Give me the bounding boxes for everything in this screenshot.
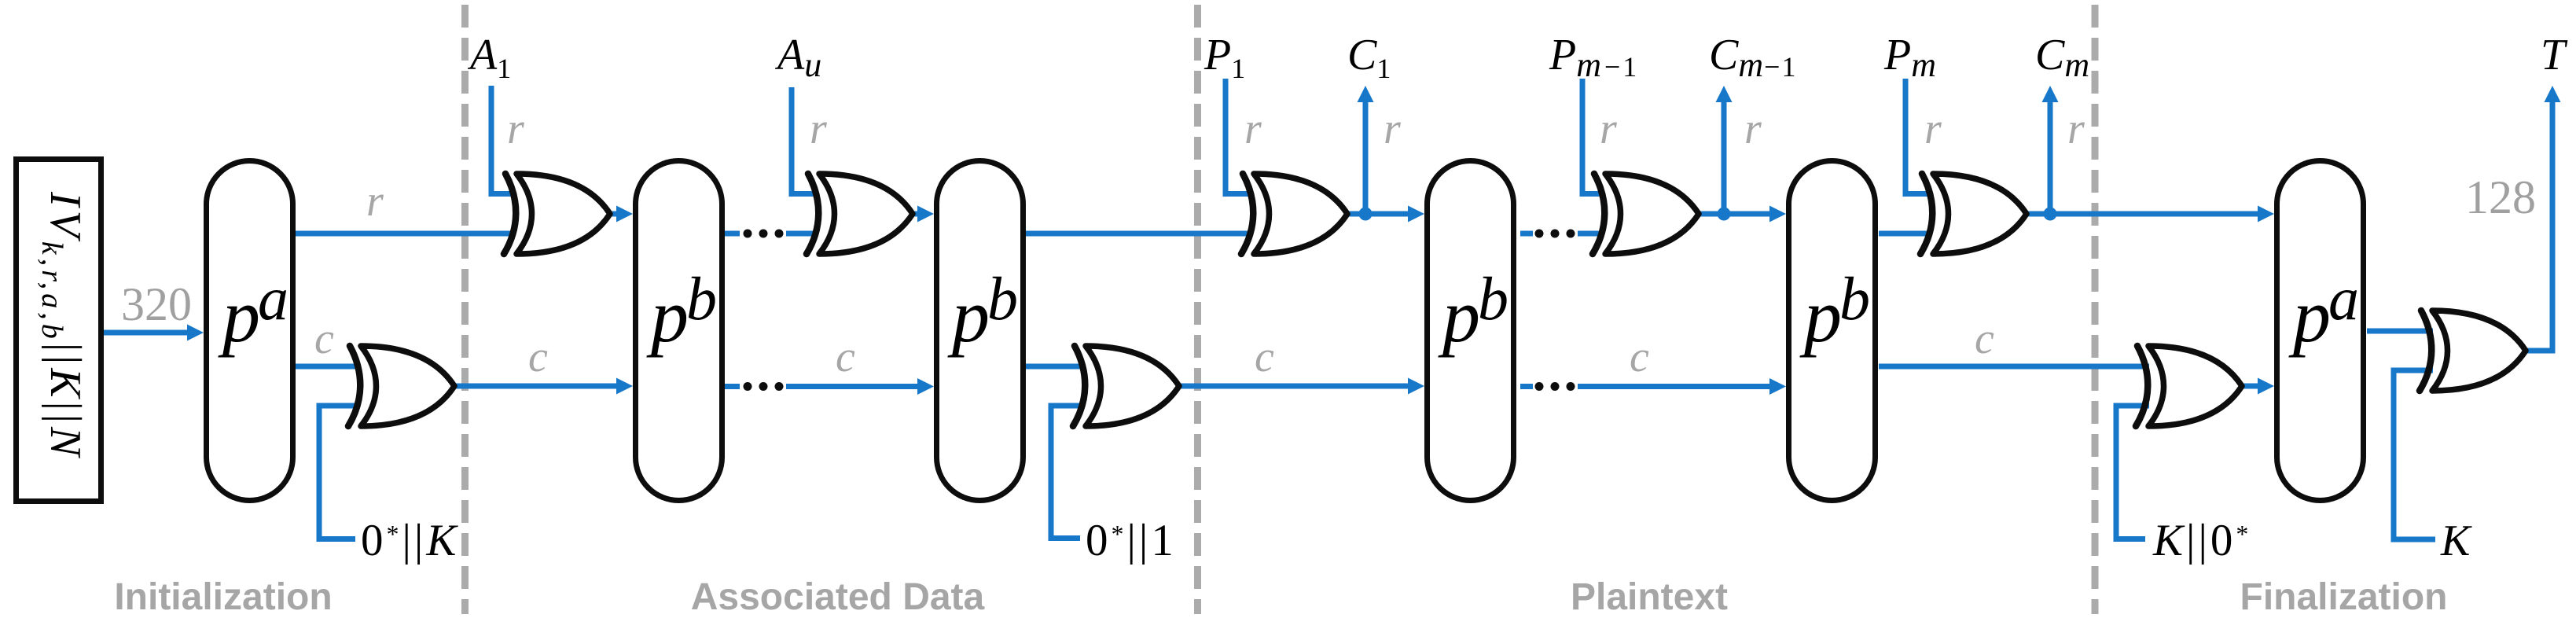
junction node Cm (2044, 208, 2057, 221)
arrowhead C1 up (1358, 86, 1374, 102)
arrowhead c into p^a2 (2258, 378, 2274, 395)
arrowhead c into p^b3 (1408, 378, 1424, 395)
svg-text:r: r (1924, 105, 1942, 153)
xor U1 (init c-line, 0*||K) (348, 346, 454, 426)
wire c: p^a to init XOR (296, 364, 360, 370)
arrowhead Cm-1 up (1716, 86, 1733, 102)
wire P1 drop (1226, 79, 1252, 194)
ellipsis dots r line (AD) (744, 230, 752, 238)
svg-text:r: r (366, 177, 384, 226)
wire Cm-1 up arrow (1722, 101, 1727, 214)
permutation p^a (finalization) (2277, 161, 2364, 501)
wire r: p^b2 to XOR P1 (1026, 231, 1252, 237)
wire K feed (2394, 370, 2435, 539)
svg-text:c: c (1255, 333, 1274, 381)
wire c: p^b3 to dots (1520, 384, 1533, 389)
svg-text:0*||1: 0*||1 (1086, 516, 1177, 565)
permutation p^a (initialization) (207, 161, 293, 501)
xor U9 (tag T) (2420, 311, 2526, 391)
wire Pm drop (1905, 79, 1931, 194)
permutation p^b (AD 2) (937, 161, 1023, 501)
xor U6 (Pm-1 on r-line) (1593, 174, 1699, 254)
wire Au drop (792, 87, 816, 194)
svg-text:c: c (836, 333, 855, 381)
permutation p^b (AD 1) (636, 161, 722, 501)
wire c: XOR K||0* out to p^a2 (2242, 384, 2259, 389)
arrowhead XOR Au out into p^b2 (917, 206, 934, 223)
wire Cm up arrow (2048, 101, 2053, 214)
svg-text:c: c (1630, 333, 1649, 381)
xor U4 (0*||1 on c-line) (1073, 346, 1179, 426)
wire c: dots to p^b4 (1578, 384, 1771, 389)
wire Pm-1 drop (1582, 79, 1604, 194)
wire r: dots to XOR Pm-1 (1578, 231, 1604, 237)
arrowhead r into p^a2 (2258, 206, 2274, 223)
junction node Cm-1 (1718, 208, 1731, 221)
wire XOR A1 out (610, 212, 619, 217)
svg-text:Plaintext: Plaintext (1571, 576, 1728, 618)
IV input box (17, 160, 101, 502)
svg-text:r: r (810, 105, 827, 153)
xor U8 (K||0* on c-line) (2136, 346, 2242, 426)
wire 320 bus (104, 330, 189, 336)
wire r: p^a to XOR A1 (296, 231, 515, 237)
wire c: dots to p^b2 (786, 384, 917, 389)
junction node C1 (1359, 208, 1373, 221)
wire r: p^b1 to dots (723, 231, 740, 237)
svg-text:128: 128 (2465, 171, 2536, 223)
wire XOR Au out (913, 212, 920, 217)
wire 0*||K feed (319, 406, 360, 539)
wire c: p^b2 to XOR 0*||1 (1026, 364, 1085, 370)
svg-text:T: T (2541, 31, 2568, 79)
wire XOR Pm out to p^a2 (2027, 212, 2259, 217)
wire r: p^a2 to XOR T (2367, 329, 2433, 334)
svg-text:r: r (1384, 105, 1401, 153)
wire XOR T out and T up arrow (2526, 101, 2552, 351)
arrowhead T up (2545, 86, 2561, 102)
svg-text:c: c (528, 333, 548, 381)
svg-text:Associated Data: Associated Data (691, 576, 985, 618)
xor U2 (A1 on r-line) (504, 174, 610, 254)
svg-text:c: c (1975, 314, 1994, 363)
ellipsis dots c line (plaintext) (1535, 382, 1544, 391)
wire 0*||1 feed (1051, 406, 1085, 539)
permutation p^b (plaintext 1) (1428, 161, 1514, 501)
wire XOR Pm-1 out to p^b4 (1699, 212, 1771, 217)
xor U5 (P1 on r-line) (1241, 174, 1347, 254)
ellipsis dots r line (plaintext) (1535, 230, 1544, 238)
svg-text:r: r (507, 105, 524, 153)
arrowhead XOR A1 out into p^b1 (616, 206, 633, 223)
svg-text:r: r (1600, 105, 1617, 153)
xor U7 (Pm on r-line) (1920, 174, 2027, 254)
svg-text:0*||K: 0*||K (361, 516, 459, 565)
wire r: p^b3 to dots (1520, 231, 1533, 237)
svg-text:Finalization: Finalization (2240, 576, 2448, 618)
wire c: init XOR out to p^b1 (454, 384, 618, 389)
ellipsis dots c line (AD) (744, 382, 752, 391)
arrowhead c into p^b4 (1769, 378, 1786, 395)
section divider (plaintext/finalization) (2092, 5, 2099, 614)
xor U3 (Au on r-line) (807, 174, 913, 254)
wire C1 up arrow (1363, 101, 1369, 214)
svg-text:r: r (2067, 105, 2085, 153)
arrowhead r into p^b4 (1769, 206, 1786, 223)
arrowhead c into p^b1 (616, 378, 633, 395)
svg-text:Initialization: Initialization (114, 576, 332, 618)
arrowhead r into p^b3 (1408, 206, 1424, 223)
section divider (AD/plaintext) (1194, 5, 1201, 614)
wire XOR P1 out to p^b3 (1347, 212, 1409, 217)
wire r: p^b4 to XOR Pm (1879, 231, 1931, 237)
svg-text:r: r (1244, 105, 1262, 153)
arrowhead 320 into p^a (187, 325, 204, 341)
svg-text:c: c (314, 314, 334, 363)
svg-text:320: 320 (121, 278, 192, 330)
wire r: dots to XOR Au (786, 231, 816, 237)
wire c: XOR3 out to p^b3 (1179, 384, 1409, 389)
svg-text:K: K (2440, 517, 2472, 565)
arrowhead c into p^b2 (917, 378, 934, 395)
wire c: p^b1 to dots (723, 384, 740, 389)
wire c: p^b4 to XOR K||0* (1879, 364, 2149, 370)
wire A1 drop (491, 86, 515, 194)
permutation p^b (plaintext 2) (1789, 161, 1876, 501)
section divider (init/AD) (461, 5, 469, 614)
wire K||0* feed (2116, 406, 2149, 539)
svg-text:r: r (1744, 105, 1762, 153)
arrowhead Cm up (2042, 86, 2059, 102)
